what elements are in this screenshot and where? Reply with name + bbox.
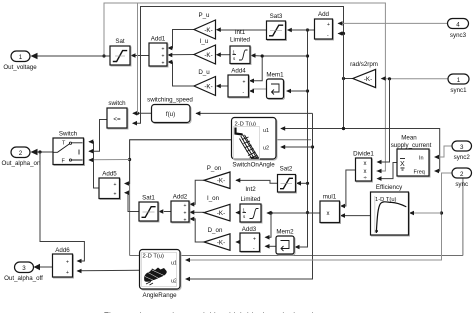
svg-text:Out_alpha_on: Out_alpha_on	[2, 160, 41, 167]
svg-text:Mem2: Mem2	[276, 229, 294, 236]
port Out_alpha_on oval 2	[2, 147, 41, 167]
svg-text:+: +	[243, 80, 246, 86]
svg-text:sync3: sync3	[450, 32, 467, 39]
svg-text:x: x	[327, 211, 330, 217]
svg-text:mul1: mul1	[323, 194, 337, 201]
wire: error signal column V_A from Add output down to Mem2	[249, 28, 309, 249]
relational switch <=	[107, 100, 128, 129]
wire: Add3 out to D_on	[235, 240, 240, 245]
product Divide1	[353, 151, 374, 183]
svg-text:4: 4	[456, 21, 460, 28]
wire: Sat output to Out_voltage port	[31, 53, 111, 59]
sum Add6	[53, 247, 74, 278]
wire: I_u to Add1 middle input	[167, 53, 194, 58]
wire: f(u) input line down to SwitchOnAngle u2 and AngleRange u2	[185, 113, 314, 281]
svg-text:Out_alpha_off: Out_alpha_off	[4, 275, 43, 282]
svg-text:-K-: -K-	[217, 240, 225, 247]
svg-text:u2: u2	[263, 146, 269, 152]
wire: mul1 output bus to Int2 / Add3 / Mem2	[265, 211, 321, 240]
svg-text:Switch: Switch	[59, 131, 78, 138]
wire: rpm bus to Add minus input	[338, 31, 346, 36]
svg-text:+: +	[253, 237, 256, 243]
svg-text:-K-: -K-	[364, 76, 372, 83]
svg-text:-K-: -K-	[204, 84, 212, 91]
svg-text:-K-: -K-	[204, 27, 212, 34]
sum Add4	[228, 68, 250, 99]
wire: sync2 to Mean In	[434, 146, 452, 159]
wire: Mem2 out to Add3 bottom input	[265, 244, 277, 249]
svg-text:AngleRange: AngleRange	[142, 292, 177, 299]
svg-text:+: +	[184, 203, 187, 209]
svg-text:x: x	[364, 161, 367, 167]
svg-text:+: +	[114, 182, 117, 188]
sum Add	[315, 11, 334, 40]
wire: D_u to Add1 bottom input	[167, 60, 194, 86]
function f(u) switching_speed	[147, 97, 193, 124]
svg-text:Sat2: Sat2	[280, 166, 293, 173]
wire: AngleRange out to Add6 bottom input	[77, 269, 140, 274]
svg-text:-K-: -K-	[217, 178, 225, 185]
wire: Mean output to Divide1 bottom input	[377, 163, 398, 181]
port sync oval 2	[452, 168, 472, 188]
svg-text:-K-: -K-	[204, 52, 212, 59]
wire: Int2 out to I_on	[235, 210, 240, 215]
svg-text:Add4: Add4	[231, 68, 246, 75]
wire: Sat3 output to P_u	[216, 27, 267, 32]
svg-text:<=: <=	[113, 116, 121, 123]
wire: rpm bus down to u1/Freq line	[342, 34, 345, 131]
wire: sync3 to Add plus input	[338, 21, 448, 26]
svg-text:Add3: Add3	[242, 226, 257, 233]
svg-text:switch: switch	[108, 100, 126, 107]
svg-text:1: 1	[457, 77, 461, 84]
svg-text:+: +	[66, 260, 69, 266]
mean Mean supply_current	[391, 135, 432, 178]
svg-text:+: +	[162, 47, 165, 53]
svg-text:Add5: Add5	[102, 171, 117, 178]
wire: Add2 out to Sat1	[158, 209, 171, 214]
svg-text:In: In	[419, 156, 424, 162]
svg-text:+: +	[114, 192, 117, 198]
svg-text:Add: Add	[318, 11, 330, 18]
svg-text:Int2: Int2	[245, 186, 256, 193]
svg-text:Add1: Add1	[151, 36, 166, 43]
frame: lower-left panel box	[130, 140, 463, 256]
svg-text:Efficiency: Efficiency	[376, 184, 403, 191]
svg-text:2: 2	[19, 150, 23, 157]
svg-text:+: +	[162, 54, 165, 60]
svg-text:Out_voltage: Out_voltage	[3, 64, 37, 71]
integrator Int1 Limited	[230, 29, 251, 65]
svg-text:rad/s2rpm: rad/s2rpm	[350, 61, 378, 68]
port Out_voltage oval 1	[3, 51, 37, 71]
svg-text:sync: sync	[455, 181, 468, 188]
wire: Add1 to Sat	[131, 53, 150, 58]
wire: Sat2 out to P_on input	[235, 178, 277, 183]
saturation Sat3	[267, 13, 287, 41]
svg-text:X: X	[400, 161, 405, 168]
wire: Switch out to Out_alpha_on and down to Add6	[31, 149, 85, 263]
integrator Int2 Limited	[240, 186, 262, 223]
svg-text:2: 2	[460, 171, 464, 178]
lookup1d Efficiency	[371, 184, 410, 236]
gain D_u	[194, 69, 216, 96]
wire: D_on to Add2 bottom	[189, 217, 204, 242]
wire: Divide1 out to mul1 top input	[340, 170, 356, 208]
svg-text:Sat3: Sat3	[270, 13, 283, 20]
sum Add1	[149, 36, 168, 68]
wire: P_u to Add1 top input	[167, 30, 194, 51]
saturation Sat2	[278, 166, 297, 194]
svg-text:-K-: -K-	[217, 210, 225, 217]
svg-text:2-D T(u): 2-D T(u)	[143, 254, 165, 260]
gain P_u	[194, 12, 216, 39]
svg-text:P_u: P_u	[198, 12, 210, 19]
wire: Int1 to I_u	[216, 52, 230, 57]
wire: I_on to Add2 middle	[189, 210, 204, 215]
wire: P_on to Add2 top	[189, 180, 204, 206]
gain I_on	[204, 195, 230, 221]
svg-text:f(u): f(u)	[166, 111, 175, 118]
svg-text:+: +	[184, 211, 187, 217]
svg-text:1: 1	[19, 54, 23, 61]
svg-text:3: 3	[22, 265, 26, 272]
wire: Add5 output up to Switch T input	[88, 139, 99, 188]
svg-text:Add2: Add2	[173, 194, 188, 201]
wire: sync1 to rad/s2rpm and Divide1	[377, 76, 449, 164]
svg-text:Int1: Int1	[235, 29, 246, 36]
svg-text:3: 3	[460, 144, 464, 151]
wire: SwitchOnAngle output loop to Switch F and Add5 top	[88, 140, 231, 186]
wire: f(u) out to switch top input	[132, 3, 151, 116]
svg-text:I_u: I_u	[200, 38, 209, 45]
svg-text:I_on: I_on	[207, 195, 220, 202]
svg-text:D_on: D_on	[208, 227, 223, 234]
wire: rad/s2rpm rpm bus around top	[132, 7, 353, 126]
gain P_on	[204, 165, 230, 189]
svg-text:Divide1: Divide1	[353, 151, 374, 158]
svg-text:x: x	[364, 169, 367, 175]
sum Add3	[240, 226, 261, 253]
wire: switch out down to Switch middle input	[88, 120, 107, 154]
memory Mem1	[266, 72, 284, 100]
svg-text:+: +	[184, 218, 187, 224]
switch Switch (T/F)	[53, 131, 85, 166]
gain I_u	[194, 38, 216, 64]
svg-text:Mean: Mean	[401, 135, 417, 142]
svg-text:Mem1: Mem1	[266, 72, 284, 79]
svg-text:P_on: P_on	[207, 165, 222, 172]
port sync2 oval 3	[452, 141, 472, 161]
svg-text:Limited: Limited	[241, 196, 262, 203]
wire: f(u) input from mid column	[195, 111, 312, 116]
saturation Sat	[110, 38, 131, 66]
wire: Efficiency out to mul1 bottom input	[340, 213, 371, 218]
port sync1 oval 1	[448, 74, 469, 94]
wire: Sat1 out up to Add5 bottom input	[124, 190, 139, 211]
svg-text:Freq: Freq	[414, 170, 425, 176]
wire: sync to Efficiency input and AngleRange u1	[185, 173, 452, 262]
lookup2d SwitchOnAngle	[232, 118, 278, 169]
port sync3 oval 4	[448, 19, 469, 40]
svg-text:Add6: Add6	[55, 247, 70, 254]
wire: Add output to Sat3	[287, 28, 315, 33]
wire: Add4 to D_u	[216, 84, 228, 89]
svg-text:+: +	[327, 22, 330, 28]
product mul1	[320, 194, 341, 224]
svg-text:Limited: Limited	[230, 37, 251, 44]
sum Add5	[99, 171, 121, 200]
gain D_on	[204, 227, 230, 250]
saturation Sat1	[139, 195, 159, 223]
svg-text:supply_current: supply_current	[391, 142, 432, 149]
svg-text:Sat1: Sat1	[142, 195, 155, 202]
gain rad/s2rpm	[350, 61, 378, 88]
svg-text:u1: u1	[263, 128, 269, 134]
svg-text:sync2: sync2	[454, 154, 471, 161]
svg-text:Sat: Sat	[115, 38, 125, 45]
wire: Out_voltage feedback top bus	[102, 3, 385, 171]
sum Add2	[171, 194, 190, 224]
memory Mem2	[276, 229, 295, 256]
wire: Divide1 middle input arrow	[377, 169, 382, 174]
svg-text:sync1: sync1	[450, 87, 467, 94]
svg-text:switching_speed: switching_speed	[147, 97, 193, 104]
lookup2d AngleRange	[140, 250, 182, 300]
wire: Add6 out to Out_alpha_off	[34, 264, 53, 270]
wire: SwitchOnAngle u1 and Mean Freq line from rpm bus	[280, 126, 440, 173]
svg-text:+: +	[162, 61, 165, 67]
port Out_alpha_off oval 3	[4, 262, 43, 282]
svg-text:+: +	[66, 270, 69, 276]
wire: Mem1 to Add4 bottom input	[249, 89, 267, 94]
svg-text:D_u: D_u	[198, 69, 210, 76]
svg-text:SwitchOnAngle: SwitchOnAngle	[232, 162, 275, 169]
